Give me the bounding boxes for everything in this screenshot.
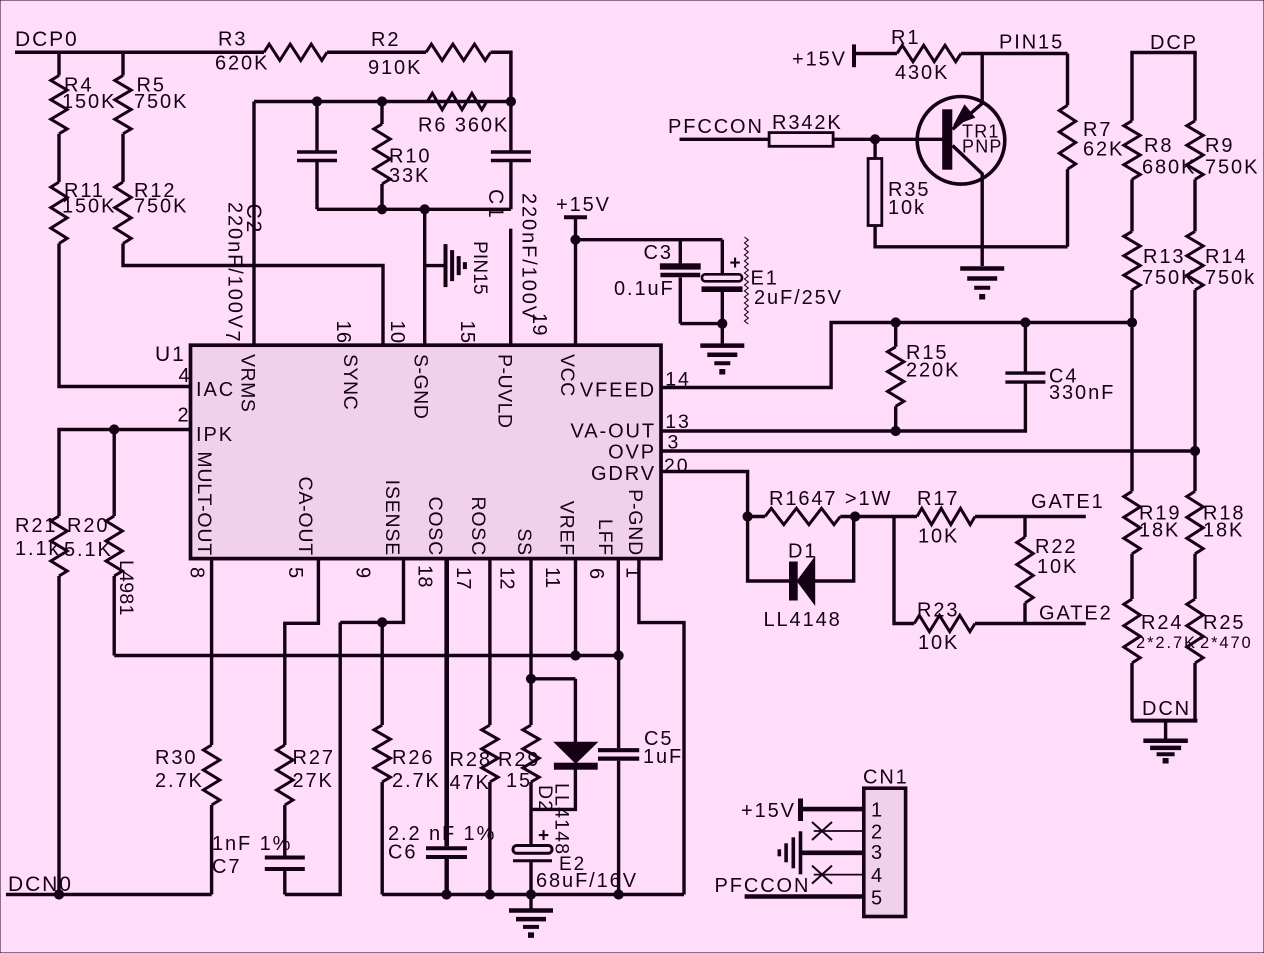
junction VCC node bbox=[571, 235, 580, 244]
svg-text:GATE1: GATE1 bbox=[1031, 491, 1105, 513]
svg-text:750K: 750K bbox=[134, 91, 188, 113]
svg-text:LL4148: LL4148 bbox=[764, 609, 842, 631]
svg-text:VA-OUT: VA-OUT bbox=[571, 421, 656, 443]
junction VFEED sense bbox=[1127, 318, 1136, 327]
svg-text:5: 5 bbox=[284, 567, 306, 578]
svg-text:PIN15: PIN15 bbox=[999, 32, 1064, 54]
resistor R5 bbox=[115, 76, 131, 134]
junction C5 rail bbox=[614, 890, 623, 899]
wire IPK bbox=[59, 430, 191, 517]
wire C3 bottom jog bbox=[680, 322, 722, 325]
svg-text:10: 10 bbox=[386, 321, 408, 344]
ground under TR1 bbox=[960, 266, 1004, 271]
svg-text:R26: R26 bbox=[392, 747, 434, 769]
wire R23 drop bbox=[894, 517, 914, 624]
svg-text:U1: U1 bbox=[155, 343, 186, 366]
svg-text:D1: D1 bbox=[788, 541, 817, 563]
wire R7 top bbox=[1066, 54, 1069, 106]
wire VREF stub bbox=[574, 559, 577, 656]
svg-text:SS: SS bbox=[513, 528, 535, 556]
resistor R13 bbox=[1124, 231, 1140, 290]
wire R25 to DCN bbox=[1193, 663, 1196, 721]
svg-text:P-UVLD: P-UVLD bbox=[494, 354, 516, 429]
capacitor C1 bbox=[491, 150, 531, 153]
svg-text:18K: 18K bbox=[1203, 520, 1244, 542]
svg-text:VREF: VREF bbox=[556, 501, 578, 556]
svg-text:R28: R28 bbox=[450, 749, 492, 771]
svg-text:330nF: 330nF bbox=[1049, 382, 1115, 404]
transistor TR1 base bar bbox=[943, 110, 952, 169]
svg-text:R17: R17 bbox=[917, 488, 959, 510]
wire R27 to C7 bbox=[283, 805, 286, 858]
resistor R21 bbox=[51, 516, 67, 576]
wire R14 down bbox=[1193, 290, 1196, 491]
svg-text:IPK: IPK bbox=[196, 424, 234, 446]
wire C1 bottom bbox=[509, 161, 512, 210]
wire R4-R11 bbox=[57, 134, 60, 182]
wire CN1 pin5 bbox=[745, 894, 864, 899]
wire CN1 pin1 bbox=[801, 807, 864, 812]
junction rail2-R10 bbox=[377, 97, 386, 106]
wire GATE2 bbox=[975, 622, 1086, 625]
capacitor C6 bbox=[426, 846, 467, 850]
no-connect X pin2 bbox=[812, 822, 832, 840]
svg-text:R13: R13 bbox=[1143, 246, 1185, 268]
junction R15 bottom bbox=[891, 426, 900, 435]
svg-text:PFCCON: PFCCON bbox=[715, 875, 811, 897]
wire C7 bottom bbox=[283, 869, 286, 895]
svg-text:430K: 430K bbox=[895, 62, 949, 84]
resistor R12 bbox=[115, 182, 131, 244]
wire R28 bottom bbox=[488, 782, 491, 895]
svg-text:R27: R27 bbox=[293, 747, 335, 769]
svg-text:+15V: +15V bbox=[556, 194, 611, 216]
resistor R35 box bbox=[868, 159, 882, 226]
wire R5 tap bbox=[121, 52, 124, 75]
svg-text:R24: R24 bbox=[1141, 612, 1183, 634]
junction R35 tap bbox=[871, 135, 880, 144]
svg-text:C3: C3 bbox=[644, 242, 673, 264]
svg-text:220K: 220K bbox=[906, 360, 960, 382]
svg-text:2: 2 bbox=[871, 821, 884, 843]
resistor R342K box bbox=[769, 133, 833, 147]
svg-text:10K: 10K bbox=[918, 526, 959, 548]
wire C1 top bbox=[509, 102, 512, 153]
junction VREF bbox=[571, 651, 580, 660]
svg-text:750K: 750K bbox=[134, 196, 188, 218]
junction rail3-SGND bbox=[420, 205, 429, 214]
wire R9-R14 bbox=[1193, 179, 1196, 231]
svg-text:220nF/100V: 220nF/100V bbox=[518, 193, 540, 321]
wire R4 tap bbox=[57, 52, 60, 75]
resistor R23 bbox=[914, 615, 975, 631]
svg-text:910K: 910K bbox=[368, 57, 422, 79]
svg-text:+: + bbox=[730, 253, 743, 274]
resistor R29 bbox=[523, 725, 539, 782]
wire R13 down bbox=[1130, 290, 1133, 491]
svg-text:1: 1 bbox=[871, 799, 884, 821]
svg-text:13: 13 bbox=[665, 411, 691, 433]
svg-text:P-GND: P-GND bbox=[624, 489, 646, 556]
resistor R4 bbox=[51, 76, 67, 134]
svg-text:R3: R3 bbox=[218, 29, 247, 51]
wire R10 bottom bbox=[380, 184, 383, 209]
svg-text:C1: C1 bbox=[484, 189, 507, 220]
wire DCN0 rail bbox=[6, 893, 212, 897]
svg-text:16: 16 bbox=[332, 321, 354, 344]
svg-text:VFEED: VFEED bbox=[580, 380, 656, 402]
ground under DCN bbox=[1143, 738, 1188, 743]
resistor R24 bbox=[1124, 599, 1140, 663]
svg-text:12: 12 bbox=[496, 567, 518, 590]
wire rail R2 end + corner down bbox=[491, 52, 511, 101]
wire C5 top bbox=[617, 656, 620, 749]
resistor R22 bbox=[1017, 537, 1033, 603]
wire R19-R24 bbox=[1130, 554, 1133, 599]
svg-text:PFCCON: PFCCON bbox=[668, 116, 764, 138]
wire R30 bottom bbox=[210, 805, 213, 895]
svg-text:11: 11 bbox=[541, 567, 563, 588]
wire P-GND route bbox=[639, 559, 684, 895]
svg-text:10K: 10K bbox=[918, 632, 959, 654]
wire C4 top bbox=[1024, 323, 1027, 374]
resistor R30 bbox=[203, 745, 219, 805]
wire R26 bottom bbox=[381, 782, 384, 895]
wire PFCCON bbox=[680, 138, 770, 141]
junction E2 bottom bbox=[526, 890, 535, 899]
wire ROSC line bbox=[488, 559, 491, 725]
wire R29 top bbox=[529, 679, 532, 725]
wire +15V to VCC bbox=[574, 217, 577, 345]
resistor R15 bbox=[888, 347, 904, 407]
junction GDRV-D1 bbox=[743, 512, 752, 521]
svg-text:LL4148: LL4148 bbox=[551, 783, 573, 855]
svg-text:+: + bbox=[538, 826, 551, 847]
svg-text:8: 8 bbox=[186, 567, 208, 578]
wire VCC to E1 bbox=[576, 238, 723, 241]
wire P-UVLD stub bbox=[509, 229, 512, 346]
svg-text:R1647 >1W: R1647 >1W bbox=[769, 488, 892, 510]
junction IPK-R20 bbox=[110, 425, 119, 434]
op-amp U1 box bbox=[191, 345, 662, 558]
wire R12 to SYNC bbox=[123, 244, 383, 346]
junction E1 bottom bbox=[718, 319, 727, 328]
wire R8-R13 bbox=[1130, 179, 1133, 231]
diode D2 bbox=[574, 679, 577, 742]
capacitor C4 bbox=[1005, 371, 1045, 374]
svg-text:220nF/100V: 220nF/100V bbox=[224, 202, 246, 330]
svg-text:CA-OUT: CA-OUT bbox=[294, 476, 316, 556]
svg-text:750K: 750K bbox=[1205, 157, 1259, 179]
wire C2 bottom bbox=[315, 161, 318, 210]
svg-text:R29: R29 bbox=[498, 749, 540, 771]
wire R22 top stub bbox=[1023, 517, 1026, 538]
junction rail2-C1 bbox=[506, 97, 515, 106]
svg-text:R30: R30 bbox=[155, 747, 197, 769]
svg-text:6: 6 bbox=[585, 568, 607, 579]
svg-text:33K: 33K bbox=[389, 165, 430, 187]
wire C5 bottom bbox=[617, 761, 620, 895]
svg-text:5.1K: 5.1K bbox=[64, 539, 113, 561]
diode D1 bbox=[748, 517, 790, 582]
junction R15 top bbox=[891, 318, 900, 327]
svg-text:R14: R14 bbox=[1205, 246, 1247, 268]
svg-text:27K: 27K bbox=[293, 770, 334, 792]
svg-text:620K: 620K bbox=[215, 53, 269, 75]
svg-text:VRMS: VRMS bbox=[237, 354, 259, 412]
wire GDRV bbox=[661, 472, 748, 517]
wire VFEED bbox=[661, 323, 1132, 388]
wire R24 to DCN bbox=[1130, 663, 1133, 721]
wire SS-VREF jog bbox=[531, 677, 575, 680]
transistor TR1 circle bbox=[917, 97, 1005, 185]
wire DCP0 rail bbox=[15, 51, 264, 55]
junction R28 rail bbox=[485, 890, 494, 899]
wire +15V to R1 bbox=[854, 52, 897, 55]
svg-text:1nF 1%: 1nF 1% bbox=[212, 833, 292, 855]
wire rail B bbox=[285, 622, 340, 894]
svg-text:ISENSE: ISENSE bbox=[381, 480, 403, 556]
svg-text:2: 2 bbox=[178, 405, 191, 427]
wire CN1 pin3 bbox=[801, 850, 864, 855]
wire base bbox=[833, 138, 943, 141]
wire R7 bottom bbox=[1066, 169, 1069, 247]
wire R22 bottom stub bbox=[1023, 603, 1026, 624]
wire COSC line bbox=[444, 559, 449, 847]
svg-text:1.1k: 1.1k bbox=[15, 538, 60, 560]
resistor R19 bbox=[1124, 491, 1140, 554]
junction rail3-R10 bbox=[377, 205, 386, 214]
wire CN1 pin2 bbox=[814, 830, 864, 832]
capacitor E2 electrolytic bbox=[513, 846, 552, 854]
svg-text:VCC: VCC bbox=[556, 354, 578, 397]
wire S-GND line bbox=[423, 209, 426, 345]
resistor R18 bbox=[1187, 491, 1203, 554]
resistor R10 bbox=[374, 124, 390, 184]
svg-text:R23: R23 bbox=[917, 600, 959, 622]
svg-text:17: 17 bbox=[452, 567, 474, 590]
svg-text:COSC: COSC bbox=[424, 496, 446, 556]
svg-text:2.7K: 2.7K bbox=[155, 770, 204, 792]
resistor R1647 bbox=[765, 508, 840, 524]
svg-text:680K: 680K bbox=[1142, 157, 1196, 179]
wire rail C bbox=[382, 893, 684, 896]
svg-text:150K: 150K bbox=[62, 196, 116, 218]
node DCN bar bbox=[1131, 719, 1197, 723]
svg-text:4: 4 bbox=[179, 365, 192, 387]
svg-text:ROSC: ROSC bbox=[467, 496, 489, 556]
resistor R7 bbox=[1059, 105, 1075, 169]
svg-text:14: 14 bbox=[665, 368, 691, 390]
junction rail2-C2 bbox=[312, 97, 321, 106]
svg-text:62K: 62K bbox=[1083, 139, 1124, 161]
wire ISENSE jog bbox=[340, 559, 403, 623]
svg-text:CN1: CN1 bbox=[863, 767, 909, 789]
svg-text:SYNC: SYNC bbox=[339, 354, 361, 410]
svg-text:R342K: R342K bbox=[772, 112, 843, 134]
resistor R17 bbox=[917, 508, 975, 524]
resistor R8 bbox=[1124, 121, 1140, 180]
svg-text:R22: R22 bbox=[1035, 536, 1077, 558]
junction DCN0-R21 bbox=[54, 890, 63, 899]
wire R20 bottom corner bbox=[112, 576, 115, 656]
svg-text:15: 15 bbox=[506, 770, 532, 792]
svg-text:2*470: 2*470 bbox=[1200, 634, 1253, 652]
svg-text:DCN0: DCN0 bbox=[8, 873, 73, 896]
wire C6 bottom bbox=[445, 857, 449, 895]
wire CN1 pin4 bbox=[814, 874, 864, 876]
wire R21 bottom bbox=[57, 576, 60, 895]
wire rail2 bbox=[254, 100, 511, 103]
wire CA-OUT jog bbox=[285, 559, 319, 745]
svg-text:10K: 10K bbox=[1037, 556, 1078, 578]
svg-text:C7: C7 bbox=[212, 856, 241, 878]
svg-text:R8: R8 bbox=[1144, 135, 1173, 157]
wire DCN to ground bbox=[1164, 721, 1167, 740]
svg-text:R2: R2 bbox=[371, 29, 400, 51]
resistor R11 bbox=[51, 182, 67, 244]
ground CN1 pin3 bbox=[799, 831, 803, 874]
no-connect X pin4 bbox=[812, 866, 832, 884]
junction C4 top bbox=[1021, 318, 1030, 327]
wire DCP left top bbox=[1130, 53, 1133, 121]
resistor R14 bbox=[1187, 231, 1203, 290]
svg-text:0.1uF: 0.1uF bbox=[614, 278, 675, 300]
ground under E2 bbox=[529, 895, 532, 910]
wire DCP bracket bbox=[1130, 51, 1196, 55]
svg-text:2uF/25V: 2uF/25V bbox=[754, 287, 843, 309]
svg-text:PNP: PNP bbox=[962, 137, 1003, 157]
wire rail R3-R2 bbox=[327, 51, 426, 55]
svg-text:DCN: DCN bbox=[1142, 698, 1191, 720]
svg-text:MULT-OUT: MULT-OUT bbox=[193, 451, 215, 556]
svg-text:GATE2: GATE2 bbox=[1039, 603, 1113, 625]
resistor R3 bbox=[264, 44, 327, 60]
svg-text:OVP: OVP bbox=[608, 442, 656, 464]
svg-text:1uF: 1uF bbox=[643, 746, 683, 768]
junction ISENSE-R26 bbox=[378, 618, 387, 627]
wire C2 top bbox=[315, 102, 318, 153]
wire R15 top stub bbox=[894, 323, 897, 347]
svg-text:18K: 18K bbox=[1139, 520, 1180, 542]
svg-text:47K: 47K bbox=[450, 772, 491, 794]
junction OVP sense bbox=[1190, 446, 1199, 455]
svg-text:GDRV: GDRV bbox=[591, 463, 656, 485]
resistor R25 bbox=[1187, 599, 1203, 663]
resistor R2 bbox=[426, 44, 491, 60]
resistor R27 bbox=[277, 745, 293, 805]
svg-text:R9: R9 bbox=[1205, 135, 1234, 157]
wire R18-R25 bbox=[1193, 554, 1196, 599]
svg-text:R20: R20 bbox=[67, 515, 109, 537]
svg-text:19: 19 bbox=[528, 313, 550, 336]
svg-text:DCP0: DCP0 bbox=[15, 28, 79, 51]
transistor TR1 collector bbox=[953, 146, 984, 175]
svg-text:3: 3 bbox=[871, 842, 884, 864]
ground under E1 bbox=[700, 343, 744, 348]
resistor R6 bbox=[427, 93, 487, 109]
connector CN1 box bbox=[864, 788, 906, 916]
svg-text:4: 4 bbox=[871, 865, 884, 887]
wire VREF rail bbox=[114, 654, 618, 657]
svg-text:DCP: DCP bbox=[1150, 32, 1198, 54]
capacitor C2 bbox=[297, 150, 337, 153]
capacitor C7 bbox=[265, 856, 305, 860]
resistor R9 bbox=[1187, 121, 1203, 180]
svg-text:+15V: +15V bbox=[741, 800, 796, 822]
svg-text:R6 360K: R6 360K bbox=[418, 115, 509, 137]
svg-text:68uF/16V: 68uF/16V bbox=[536, 870, 638, 892]
wire R26 top bbox=[381, 622, 384, 725]
wire R1 to corner bbox=[961, 52, 1068, 55]
svg-text:IAC: IAC bbox=[196, 379, 235, 401]
svg-text:R1: R1 bbox=[891, 27, 920, 49]
resistor R1 bbox=[897, 45, 961, 61]
svg-text:R21: R21 bbox=[15, 515, 57, 537]
wire R20 top bbox=[112, 430, 115, 517]
svg-text:7: 7 bbox=[221, 331, 243, 342]
resistor R26 bbox=[374, 725, 390, 782]
svg-text:PIN15: PIN15 bbox=[469, 241, 490, 295]
wire VA-OUT bbox=[661, 382, 1025, 431]
capacitor C5 bbox=[598, 748, 639, 752]
wire SS line bbox=[529, 559, 532, 679]
svg-text:9: 9 bbox=[352, 567, 374, 578]
wire MULT-OUT line bbox=[210, 559, 213, 745]
wire GATE1 bbox=[975, 515, 1086, 518]
junction C6 rail bbox=[442, 890, 451, 899]
svg-text:2.7K: 2.7K bbox=[392, 770, 441, 792]
transistor TR1 emitter bbox=[981, 54, 984, 104]
svg-text:20: 20 bbox=[664, 455, 690, 477]
wire R11 to IAC corner bbox=[59, 244, 191, 387]
transistor TR1 emitter arrow bbox=[954, 105, 975, 125]
wire R5-R12 bbox=[121, 134, 124, 182]
svg-text:10k: 10k bbox=[888, 197, 926, 219]
wire OVP bbox=[661, 449, 1195, 452]
svg-text:+15V: +15V bbox=[792, 49, 847, 71]
svg-text:5: 5 bbox=[871, 888, 884, 910]
svg-text:3: 3 bbox=[668, 432, 681, 454]
resistor R28 bbox=[482, 725, 498, 782]
wire DCP right top bbox=[1193, 53, 1196, 121]
svg-text:18: 18 bbox=[414, 565, 436, 588]
svg-text:15: 15 bbox=[456, 321, 478, 344]
wire R1647 left stub bbox=[748, 515, 765, 518]
wire rail3 bbox=[317, 208, 511, 211]
ground PIN15 sideways bbox=[425, 264, 445, 267]
junction LFF-C5 bbox=[614, 651, 623, 660]
svg-text:R25: R25 bbox=[1203, 612, 1245, 634]
wire R10 top bbox=[380, 102, 383, 125]
resistor R20 bbox=[106, 516, 122, 576]
wire VRMS drop bbox=[252, 102, 255, 346]
svg-text:150K: 150K bbox=[62, 91, 116, 113]
squiggle annotation near E1 bbox=[745, 237, 749, 324]
wire R35 top bbox=[873, 139, 876, 158]
wire R35 bottom bbox=[875, 226, 1067, 247]
svg-text:S-GND: S-GND bbox=[410, 354, 432, 419]
wire LFF stub bbox=[617, 559, 620, 656]
svg-text:LFF: LFF bbox=[594, 519, 616, 556]
svg-text:C6: C6 bbox=[388, 842, 417, 864]
capacitor C3 bbox=[679, 240, 682, 264]
svg-text:750k: 750k bbox=[1205, 267, 1256, 289]
capacitor E1 electrolytic bbox=[721, 240, 724, 275]
junction R1647-D1 bbox=[851, 512, 860, 521]
svg-text:750K: 750K bbox=[1142, 267, 1196, 289]
junction SS-D2 bbox=[526, 674, 535, 683]
